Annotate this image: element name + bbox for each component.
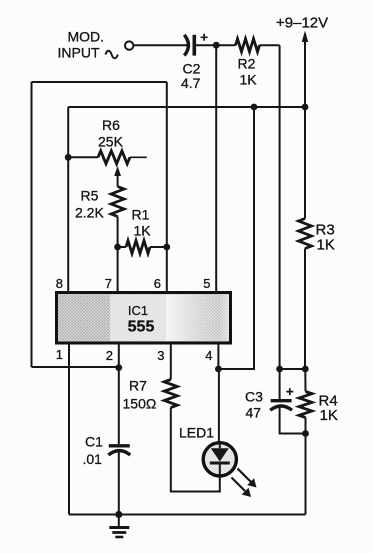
wire C1 bottom to ground rail [118,451,120,515]
junction R4 bottom / C3 [302,430,309,437]
svg-text:7: 7 [105,276,112,291]
svg-text:47: 47 [246,405,262,421]
svg-text:2.2K: 2.2K [75,205,104,221]
svg-text:R2: R2 [238,56,256,72]
resistor R5 [111,187,124,217]
junction ground rail / C1 / ground symbol [115,511,122,518]
svg-text:1K: 1K [240,72,258,88]
wire R6 right lead [130,156,147,158]
wire left side of pin2-pin6 loop [31,82,33,367]
svg-text:4: 4 [205,348,212,363]
svg-text:2: 2 [106,348,113,363]
svg-text:8: 8 [56,276,63,291]
svg-text:R5: R5 [81,188,99,204]
resistor R4 [299,392,312,418]
svg-text:LED1: LED1 [179,425,214,441]
junction pin2 / loop [115,364,122,371]
label C3 47 [245,389,263,421]
wire R1 right lead [150,246,167,248]
terminal MOD INPUT [125,41,133,49]
svg-text:C3: C3 [245,389,263,405]
resistor R2 [236,39,260,52]
plus sign of C2 [201,34,208,41]
wire from input terminal to C2 [134,44,189,46]
wire C3 top lead [279,369,281,400]
svg-text:4.7: 4.7 [181,75,201,91]
svg-text:555: 555 [128,319,155,336]
junction pin8 wire / R6 [65,154,72,161]
label IC1 555 [128,303,155,336]
V+ distribution rail [68,106,306,108]
wire R7 bottom to LED cathode corner [171,408,220,492]
svg-text:C1: C1 [85,434,103,450]
svg-text:150Ω: 150Ω [123,396,157,412]
svg-text:1K: 1K [320,407,338,424]
wire pin 3 down to R7 [170,343,172,380]
supply arrow +9-12V [302,31,308,219]
resistor R1 [126,241,150,254]
wire R4 bottom to ground rail [305,418,307,515]
svg-text:25K: 25K [98,134,124,150]
label R6 25K [98,117,124,150]
svg-text:5: 5 [203,276,210,291]
label C2 4.7 [181,61,201,92]
svg-text:.01: .01 [83,451,103,467]
label R7 150ohm [123,378,157,412]
plus sign of C3 [286,388,293,395]
svg-text:3: 3 [157,348,164,363]
capacitor C2 [184,35,194,56]
wire pin 8 to V+ rail [67,107,69,293]
resistor R7 [164,380,177,408]
svg-text:1: 1 [56,347,63,362]
junction pin4 node [215,366,222,373]
junction V+ rail / pin4 branch [251,104,258,111]
resistor R3 [299,219,312,249]
junction R1 / pin6 wire [163,244,170,251]
svg-text:INPUT: INPUT [58,45,100,61]
led LED1 [203,443,236,476]
wire R1 left lead [118,246,126,248]
sine symbol of MOD INPUT [106,51,118,59]
junction R5 / R1 / pin7 [114,244,121,251]
wire pin 4 down to LED anode [217,343,219,369]
wire pin 6 vertical [166,82,168,293]
wire pin 5 vertical [215,45,217,293]
wiper arrow of R6 [114,166,121,187]
svg-text:R6: R6 [102,117,120,133]
junction node C2 / pin5 [213,42,220,49]
svg-text:1K: 1K [134,223,152,239]
wire R2 to right corner [260,44,280,46]
svg-text:R7: R7 [129,378,147,394]
wire R3 bottom to R4 top node [304,249,306,370]
junction divider node / R3-R4 [302,366,309,373]
label R1 1K [132,207,152,239]
svg-text:IC1: IC1 [128,303,148,318]
junction V+ rail / supply line [302,104,309,111]
wire pin 7 stub to IC [117,247,119,293]
label R2 1K [238,56,258,88]
svg-text:R1: R1 [132,207,150,223]
svg-text:MOD.: MOD. [67,29,104,45]
wire R6 left lead [68,156,98,158]
wire R5 bottom to pin 7 node [117,217,119,248]
light emission arrows of LED1 [232,469,257,498]
wire loop bottom to pin 2 [32,366,119,368]
label R5 2.2K [75,188,104,221]
wire R4 top lead [304,369,306,392]
wire vertical R2 corner down to divider node [279,45,281,369]
label C1 .01 [83,434,104,468]
wire divider node horizontal [280,368,306,370]
junction divider node / C3 [276,366,283,373]
ic U1 555 body [57,293,231,344]
wire pin4 node down to LED [218,369,220,443]
wire pin 2 down to C1 [118,343,120,444]
capacitor C1 [108,446,130,455]
svg-text:6: 6 [154,276,161,291]
wire pin4 node to V+ branch corner [218,107,254,369]
label R3 1K [316,222,335,254]
ground [109,515,129,538]
capacitor C3 [270,401,292,411]
svg-text:+9–12V: +9–12V [276,15,328,32]
svg-text:1K: 1K [317,237,335,254]
ground rail bottom [69,514,306,516]
label R4 1K [319,393,338,425]
wire pin 1 to ground rail [68,343,70,515]
wire C2 to R2 [196,44,236,46]
potentiometer R6 [98,151,130,164]
wire top of pin2-pin6 loop [32,81,167,83]
label MOD. INPUT [58,29,105,61]
wire C3 bottom lead [280,406,306,434]
